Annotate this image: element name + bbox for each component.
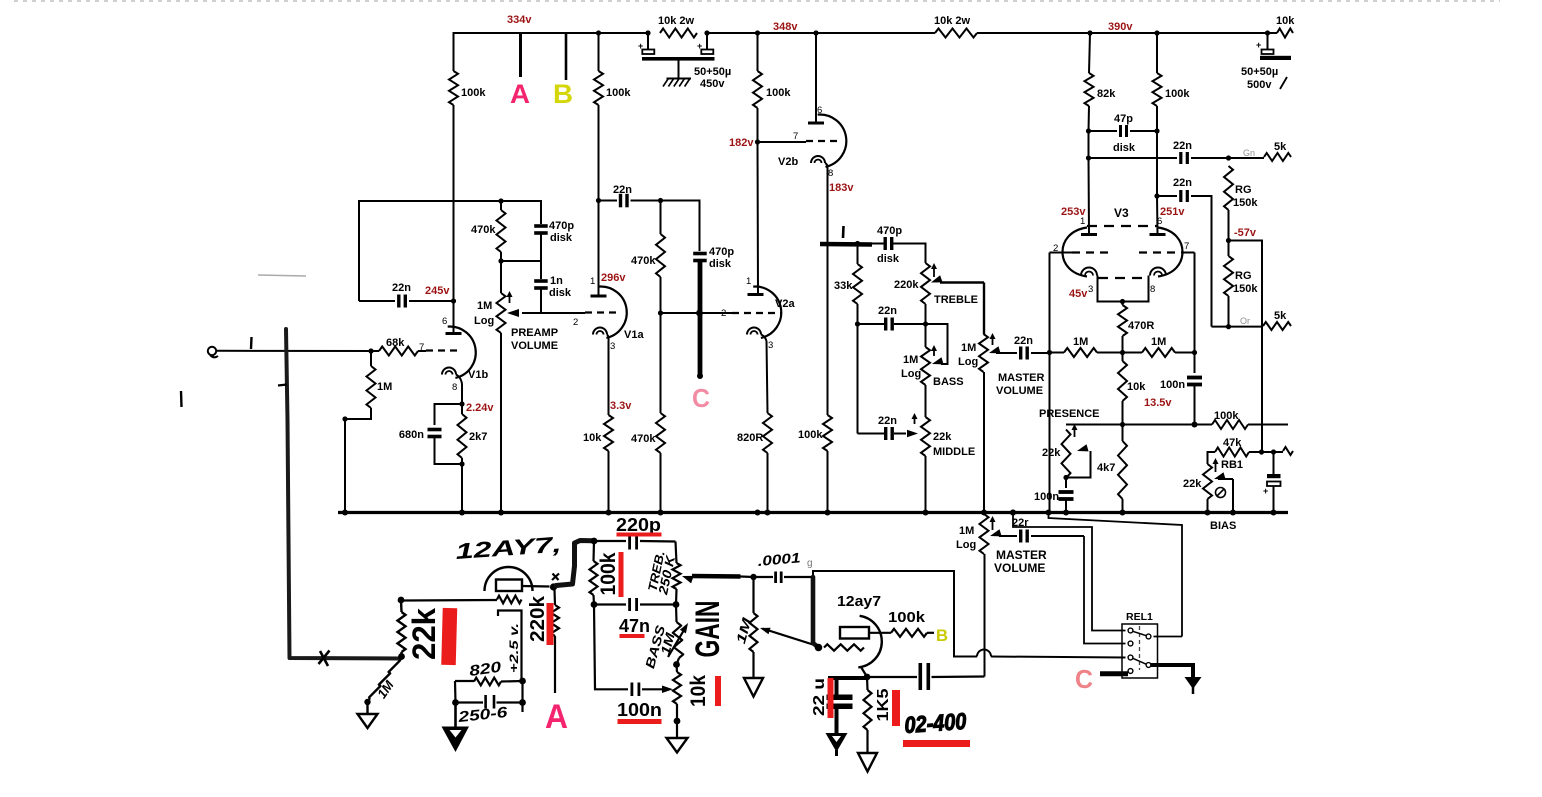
resistor 10k right partial bbox=[1268, 32, 1278, 34]
svg-text:MASTER: MASTER bbox=[998, 372, 1045, 384]
resistor 10k tail bbox=[1122, 353, 1124, 362]
junction bbox=[1087, 30, 1092, 35]
junction 47n node bbox=[591, 601, 598, 608]
wire 12ay7 cathode bbox=[861, 667, 867, 676]
junction 33k bbox=[855, 241, 860, 246]
wire stub A bbox=[519, 33, 522, 77]
svg-text:820R: 820R bbox=[737, 432, 763, 444]
svg-text:22 u: 22 u bbox=[811, 678, 828, 716]
resistor 820 cathode hand bbox=[519, 678, 526, 685]
svg-text:220p: 220p bbox=[616, 515, 661, 535]
svg-text:VOLUME: VOLUME bbox=[511, 340, 558, 352]
svg-text:TREBLE: TREBLE bbox=[934, 294, 978, 306]
wire preamp pot to rail bbox=[500, 333, 502, 513]
triode 12ay7 hand envelope bbox=[858, 616, 881, 668]
svg-text:50+50µ: 50+50µ bbox=[1241, 66, 1278, 78]
svg-text:GAIN: GAIN bbox=[689, 601, 727, 658]
junction rail bbox=[1010, 510, 1016, 516]
svg-text:+: + bbox=[1263, 486, 1268, 496]
svg-text:82k: 82k bbox=[1097, 88, 1116, 100]
top border dashed line bbox=[14, 0, 1500, 2]
capacitor 1n disk bbox=[540, 261, 542, 279]
svg-text:C: C bbox=[1075, 664, 1093, 694]
junction bbox=[923, 321, 928, 326]
svg-text:2.24v: 2.24v bbox=[466, 402, 494, 414]
junction rail bbox=[1205, 510, 1211, 516]
wire rail stub to REL1 pin1 bbox=[1010, 510, 1016, 516]
svg-text:VOLUME: VOLUME bbox=[994, 561, 1045, 575]
capacitor 22n feedback bbox=[359, 300, 395, 302]
wire V3 left grid down bbox=[1049, 253, 1051, 513]
highlight red bar 10k bbox=[715, 676, 721, 706]
resistor 1K5 bbox=[866, 677, 869, 690]
junction rail bbox=[825, 510, 831, 516]
wire cathode bar thick bbox=[828, 676, 868, 680]
wire bass wiper loop bbox=[926, 324, 948, 364]
capacitor bias electrolytic bbox=[1273, 452, 1275, 474]
svg-text:100k: 100k bbox=[606, 87, 631, 99]
potentiometer 1M Log MASTER VOLUME 2 bbox=[980, 514, 989, 554]
svg-text:22k: 22k bbox=[406, 608, 442, 660]
highlight red bar 22k bbox=[441, 608, 457, 665]
svg-text:3: 3 bbox=[610, 341, 615, 352]
wire treble wiper to master volume bbox=[983, 283, 985, 335]
svg-text:V2a: V2a bbox=[775, 298, 795, 310]
junction -57v bbox=[1226, 238, 1231, 243]
wire master volume to rail bbox=[983, 372, 985, 513]
svg-text:10k: 10k bbox=[687, 675, 710, 707]
svg-text:10k: 10k bbox=[1276, 15, 1295, 27]
junction bbox=[1271, 449, 1276, 454]
potentiometer 22k bias bbox=[1203, 464, 1212, 499]
junction bbox=[459, 401, 464, 406]
svg-text:348v: 348v bbox=[773, 21, 798, 33]
resistor 470k lower bbox=[660, 313, 662, 413]
potentiometer TREB 250K hand bbox=[676, 542, 677, 564]
wire to 470p disk C bbox=[661, 201, 700, 252]
capacitor 22u electrolytic bbox=[835, 678, 839, 695]
svg-text:1M: 1M bbox=[1151, 336, 1166, 348]
junction rail bbox=[1230, 510, 1236, 516]
relay REL1 box bbox=[1122, 624, 1158, 678]
resistor 100k V1a plate bbox=[598, 33, 600, 71]
resistor 33k slope bbox=[857, 244, 859, 265]
capacitor 22n coupling V1a bbox=[596, 198, 601, 203]
svg-text:220k: 220k bbox=[894, 279, 919, 291]
svg-text:470k: 470k bbox=[471, 224, 496, 236]
svg-text:1M: 1M bbox=[377, 381, 392, 393]
triode V1b bbox=[418, 350, 426, 352]
capacitor 50+50u 500v bbox=[1265, 30, 1270, 35]
underline red 220p bbox=[617, 533, 662, 537]
junction bbox=[1063, 475, 1068, 480]
wire 100k to 245v node bbox=[453, 105, 455, 301]
resistor 470R bbox=[1122, 302, 1124, 306]
junction cathode node bbox=[864, 674, 871, 681]
svg-text:1M: 1M bbox=[477, 300, 492, 312]
svg-text:6: 6 bbox=[817, 105, 822, 116]
svg-text:6: 6 bbox=[442, 316, 447, 327]
svg-text:470R: 470R bbox=[1128, 320, 1154, 332]
capacitor 22r bbox=[999, 535, 1017, 537]
ground arrow 22u thick bbox=[826, 733, 848, 752]
junction Gn coupling bbox=[1086, 155, 1091, 160]
svg-text:22n: 22n bbox=[1014, 335, 1033, 347]
wire 82k node down bbox=[1088, 131, 1090, 158]
svg-text:10k 2w: 10k 2w bbox=[934, 15, 971, 27]
svg-text:1: 1 bbox=[1080, 216, 1085, 227]
triode V2a bbox=[753, 287, 781, 338]
junction rail bbox=[923, 510, 929, 516]
svg-text:V2b: V2b bbox=[778, 156, 798, 168]
wire Or net bbox=[1212, 326, 1264, 328]
BASS wiper arrow diagonal bbox=[668, 630, 684, 657]
svg-text:220k: 220k bbox=[527, 595, 549, 642]
svg-text:182v: 182v bbox=[729, 137, 754, 149]
junction bbox=[1120, 299, 1125, 304]
wire V2a plate bbox=[757, 142, 760, 295]
underline red 100n bbox=[618, 719, 662, 724]
svg-text:13.5v: 13.5v bbox=[1144, 397, 1172, 409]
resistor 5k Or bbox=[1263, 322, 1291, 330]
svg-text:5k: 5k bbox=[1274, 141, 1287, 153]
12ay7 grid box bbox=[840, 627, 869, 639]
ground triangle input bbox=[366, 702, 368, 714]
svg-text:22k: 22k bbox=[1183, 478, 1202, 490]
svg-text:+2.5 v.: +2.5 v. bbox=[507, 623, 521, 673]
wire HT rail 334v-348v-390v bbox=[454, 33, 649, 71]
triode V3 envelope bbox=[1063, 228, 1088, 277]
pencil wire from input down bbox=[286, 329, 401, 659]
junction 245v bbox=[451, 298, 456, 303]
ground bus rail bbox=[338, 511, 1288, 514]
junction bbox=[459, 461, 464, 466]
input jack bbox=[208, 347, 216, 355]
wire 2k7 to rail bbox=[461, 464, 463, 513]
potentiometer BASS 1M hand bbox=[675, 605, 678, 623]
potentiometer 1M Log PREAMP VOLUME bbox=[500, 261, 502, 293]
wire coupling riser bbox=[984, 554, 986, 677]
wire feedback loop top bbox=[359, 201, 541, 301]
svg-text:470k: 470k bbox=[631, 255, 656, 267]
junction bbox=[1154, 30, 1159, 35]
junction 182v bbox=[755, 139, 760, 144]
capacitor can negative plate bbox=[642, 57, 715, 61]
capacitor 470p disk C bbox=[693, 252, 707, 256]
junction .0001 node bbox=[750, 574, 756, 580]
svg-text:100n: 100n bbox=[617, 700, 662, 720]
capacitor 47p disk bbox=[1089, 130, 1118, 132]
svg-text:2k7: 2k7 bbox=[469, 431, 487, 443]
svg-text:22n: 22n bbox=[878, 305, 897, 317]
resistor 470k preamp bbox=[500, 201, 502, 210]
resistor 10k 2w second bbox=[935, 29, 977, 38]
V1b cathode bbox=[442, 368, 456, 375]
svg-text:RG: RG bbox=[1235, 270, 1252, 282]
svg-text:VOLUME: VOLUME bbox=[996, 385, 1043, 397]
svg-text:100n: 100n bbox=[1034, 491, 1059, 503]
svg-text:disk: disk bbox=[877, 253, 900, 265]
junction bbox=[755, 30, 760, 35]
svg-text:183v: 183v bbox=[829, 182, 854, 194]
junction bbox=[1154, 128, 1159, 133]
wire 220k bottom bbox=[925, 304, 927, 324]
wire 100n wiper feed bbox=[594, 605, 628, 690]
junction bbox=[658, 310, 663, 315]
svg-text:V1b: V1b bbox=[468, 369, 488, 381]
junction rail bbox=[1120, 510, 1126, 516]
svg-text:22k: 22k bbox=[933, 431, 952, 443]
svg-text:1K5: 1K5 bbox=[875, 688, 892, 721]
svg-text:22k: 22k bbox=[1042, 447, 1061, 459]
wire middle to ground rail bbox=[925, 456, 927, 513]
ground triangle 1K5 bbox=[858, 753, 877, 772]
triode V1a bbox=[599, 287, 627, 338]
svg-text:100k: 100k bbox=[798, 429, 823, 441]
junction rail bbox=[658, 510, 664, 516]
svg-text:296v: 296v bbox=[601, 272, 626, 284]
resistor 100k hand vertical bbox=[592, 541, 595, 561]
svg-text:470p: 470p bbox=[549, 220, 574, 232]
svg-text:Log: Log bbox=[474, 315, 494, 327]
svg-text:3: 3 bbox=[768, 340, 773, 351]
V1b plate bar bbox=[446, 332, 462, 335]
junction bbox=[704, 30, 709, 35]
wire V3 right grid down bbox=[1194, 253, 1196, 353]
wire 12AY7 plate out bbox=[522, 585, 550, 588]
resistor 100k V2b cathode bbox=[827, 244, 829, 416]
svg-text:47k: 47k bbox=[1223, 437, 1242, 449]
V2a plate bar bbox=[748, 293, 764, 296]
12AY7 grid box bbox=[496, 580, 522, 592]
underline red 47n bbox=[620, 634, 645, 638]
svg-text:245v: 245v bbox=[425, 285, 450, 297]
resistor RG 150k upper bbox=[1224, 166, 1233, 210]
junction hand 22k bottom bbox=[398, 653, 405, 660]
wire stub B bbox=[565, 33, 568, 80]
hand X mark bbox=[319, 651, 330, 665]
highlight red bar 100k bbox=[619, 552, 624, 597]
svg-text:V3: V3 bbox=[1114, 206, 1129, 220]
resistor grid hand bbox=[497, 596, 522, 604]
junction bbox=[368, 348, 373, 353]
svg-text:1M: 1M bbox=[903, 354, 918, 366]
capacitor 22n Gn bbox=[1089, 157, 1178, 159]
potentiometer 22k presence bbox=[1062, 430, 1071, 479]
junction bbox=[498, 258, 503, 263]
svg-text:10k: 10k bbox=[1127, 381, 1146, 393]
highlight red bar 1K5 bbox=[892, 690, 900, 726]
junction rail bbox=[981, 510, 987, 516]
resistor 1M hand diagonal bbox=[369, 660, 400, 698]
wire REL1 to ground thick bbox=[1151, 665, 1193, 678]
svg-text:150k: 150k bbox=[1233, 197, 1258, 209]
V2b cathode bbox=[811, 156, 825, 163]
svg-text:disk: disk bbox=[709, 258, 732, 270]
ground hatch symbol bbox=[667, 78, 692, 80]
junction bbox=[1120, 422, 1125, 427]
svg-text:+: + bbox=[1256, 40, 1261, 50]
svg-text:100k: 100k bbox=[1214, 410, 1239, 422]
wire presence node bbox=[1066, 424, 1195, 426]
junction rail bbox=[342, 510, 348, 516]
wire 22k to tube grid bbox=[404, 599, 497, 602]
svg-text:2: 2 bbox=[573, 317, 578, 328]
wire thick treb wiper feed bbox=[692, 574, 741, 579]
svg-text:7: 7 bbox=[793, 131, 798, 142]
wire bass to middle bbox=[925, 385, 927, 417]
svg-text:470k: 470k bbox=[631, 433, 656, 445]
svg-text:1n: 1n bbox=[550, 275, 563, 287]
12AY7 cathode hook bbox=[498, 611, 522, 680]
resistor 100k output bbox=[869, 632, 891, 634]
capacitor 100n hand bbox=[631, 683, 634, 697]
capacitor 100n right bbox=[1194, 353, 1196, 374]
V3 cathode right bbox=[1150, 268, 1166, 276]
junction rail bbox=[1271, 510, 1277, 516]
V2a cathode bbox=[747, 328, 761, 335]
svg-text:150k: 150k bbox=[1233, 283, 1258, 295]
svg-text:100n: 100n bbox=[1160, 379, 1185, 391]
V1a cathode bbox=[593, 328, 607, 335]
wire bias diagonal to REL1 bbox=[1049, 513, 1183, 637]
junction bbox=[673, 601, 680, 608]
V2a grid dashes bbox=[732, 312, 781, 314]
pencil speck bbox=[258, 275, 306, 276]
wire 22r riser to REL1 pin2 bbox=[1084, 536, 1126, 644]
wire V2b plate bbox=[815, 33, 817, 122]
resistor 4k7 bbox=[1122, 425, 1124, 442]
junction bbox=[645, 30, 650, 35]
junction rail bbox=[606, 510, 612, 516]
svg-text:g: g bbox=[807, 558, 813, 569]
capacitor 470p disk preamp bbox=[534, 224, 548, 228]
svg-text:390v: 390v bbox=[1108, 21, 1133, 33]
resistor 22k hand bbox=[400, 600, 403, 612]
resistor 68k grid stopper bbox=[379, 347, 418, 356]
wire REL1 top right bbox=[1154, 636, 1183, 638]
capacitor 680n bbox=[435, 404, 463, 425]
potentiometer 1M gain bbox=[752, 577, 754, 613]
junction bbox=[1259, 449, 1264, 454]
junction rail bbox=[1046, 510, 1052, 516]
svg-text:45v: 45v bbox=[1069, 288, 1088, 300]
resistor 47k RB1 bbox=[1208, 452, 1216, 464]
svg-text:1: 1 bbox=[746, 276, 751, 287]
svg-text:450v: 450v bbox=[700, 78, 725, 90]
wire thick grid drop bbox=[813, 577, 819, 648]
svg-text:7: 7 bbox=[1184, 241, 1189, 252]
svg-text:10k: 10k bbox=[583, 432, 602, 444]
triode V2b bbox=[818, 115, 847, 167]
junction rail bbox=[459, 510, 465, 516]
left edge mark bbox=[180, 391, 183, 407]
relay contacts upper bbox=[1128, 628, 1133, 633]
V3 plate bars bbox=[1081, 233, 1097, 236]
svg-text:Or: Or bbox=[1240, 316, 1250, 326]
wire V1a plate bbox=[598, 105, 600, 296]
svg-text:8: 8 bbox=[452, 382, 457, 393]
svg-text:22n: 22n bbox=[1173, 140, 1192, 152]
svg-text:68k: 68k bbox=[386, 337, 405, 349]
svg-text:500v: 500v bbox=[1247, 79, 1272, 91]
V2b grid wire bbox=[758, 141, 807, 143]
junction rail bbox=[1063, 510, 1069, 516]
capacitor 22n bass bbox=[884, 318, 887, 331]
potentiometer 1M Log BASS bbox=[925, 324, 927, 347]
junction bbox=[364, 699, 370, 705]
wire to 182v node bbox=[757, 108, 759, 142]
potentiometer 220k TREBLE bbox=[921, 263, 930, 304]
underline red 02-400 bbox=[903, 740, 970, 747]
capacitor 220p bbox=[594, 540, 626, 542]
resistor 10k V1a cathode bbox=[608, 341, 610, 415]
svg-text:Log: Log bbox=[958, 356, 978, 368]
junction bbox=[1120, 350, 1125, 355]
junction 220p node bbox=[591, 538, 598, 545]
wire thick C line bbox=[698, 262, 703, 377]
wire bias out stub bbox=[1274, 451, 1284, 453]
svg-text:-57v: -57v bbox=[1234, 227, 1257, 239]
ground triangle gain pot bbox=[752, 652, 754, 678]
junction thick line grid bbox=[696, 310, 703, 317]
svg-text:22n: 22n bbox=[1173, 177, 1192, 189]
potentiometer 22k MIDDLE bbox=[921, 417, 930, 456]
svg-text:1: 1 bbox=[590, 276, 595, 287]
svg-text:100k: 100k bbox=[461, 87, 486, 99]
junction rail bbox=[765, 510, 771, 516]
wire 470k cap join bbox=[501, 260, 541, 262]
highlight red bar 220k bbox=[547, 603, 554, 645]
svg-text:MASTER: MASTER bbox=[996, 548, 1047, 562]
potentiometer 1M Log MASTER VOLUME bbox=[979, 334, 988, 372]
svg-text:V1a: V1a bbox=[624, 329, 644, 341]
capacitor 22n Or bbox=[1157, 195, 1177, 197]
resistor 1M phase left bbox=[1050, 352, 1065, 354]
resistor RG 150k lower bbox=[1228, 241, 1230, 257]
capacitor 22n middle bbox=[884, 427, 887, 440]
capacitor 50+50u 450v left section bbox=[647, 34, 649, 49]
hand tick bbox=[278, 385, 287, 386]
wire 1n to wiper arrow bbox=[522, 312, 541, 314]
svg-text:6: 6 bbox=[1157, 216, 1162, 227]
gain wiper wire bbox=[763, 629, 817, 646]
svg-text:1M: 1M bbox=[1073, 336, 1088, 348]
wire V1b cathode bbox=[461, 384, 463, 404]
svg-text:7: 7 bbox=[419, 342, 424, 353]
svg-text:BIAS: BIAS bbox=[1210, 520, 1236, 532]
svg-text:251v: 251v bbox=[1160, 206, 1185, 218]
svg-text:5k: 5k bbox=[1274, 310, 1287, 322]
junction bbox=[658, 198, 663, 203]
junction hand 22k top bbox=[398, 597, 405, 604]
svg-text:22n: 22n bbox=[878, 415, 897, 427]
junction bbox=[1154, 193, 1159, 198]
wire input bbox=[216, 350, 379, 352]
V2b plate bar bbox=[808, 122, 824, 125]
svg-text:RB1: RB1 bbox=[1221, 459, 1243, 471]
resistor 82k bbox=[1089, 33, 1090, 73]
svg-text:4k7: 4k7 bbox=[1097, 462, 1115, 474]
junction rail bbox=[498, 510, 504, 516]
svg-text:B: B bbox=[936, 626, 948, 645]
svg-text:680n: 680n bbox=[399, 429, 424, 441]
svg-text:PREAMP: PREAMP bbox=[511, 327, 558, 339]
hand x mark small bbox=[552, 574, 559, 581]
svg-text:disk: disk bbox=[1113, 142, 1136, 154]
svg-text:BASS: BASS bbox=[933, 376, 964, 388]
resistor 100k V3 plate bbox=[1156, 33, 1158, 73]
